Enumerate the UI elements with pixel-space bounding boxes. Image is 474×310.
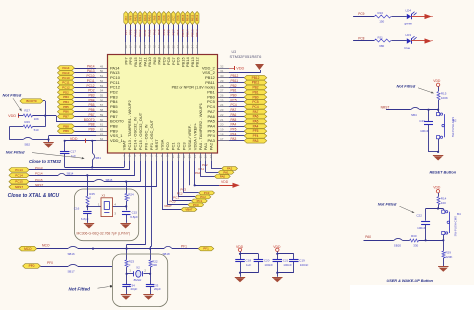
svg-text:PA3: PA3 xyxy=(208,138,216,143)
svg-text:14: 14 xyxy=(193,155,197,159)
svg-text:PB7: PB7 xyxy=(88,113,94,117)
svg-text:R29: R29 xyxy=(445,251,451,255)
svg-text:PC1: PC1 xyxy=(171,142,176,151)
svg-text:PC4: PC4 xyxy=(231,103,237,107)
svg-text:10: 10 xyxy=(171,155,175,159)
svg-text:100nF: 100nF xyxy=(283,263,292,267)
svg-text:PF0: PF0 xyxy=(29,264,35,268)
svg-text:X2: X2 xyxy=(136,266,140,270)
svg-text:16: 16 xyxy=(204,155,208,159)
svg-text:Close to XTAL & MCU: Close to XTAL & MCU xyxy=(8,193,60,199)
svg-text:24: 24 xyxy=(220,103,224,107)
svg-text:39: 39 xyxy=(167,45,171,49)
svg-text:680: 680 xyxy=(379,44,384,48)
svg-text:PB9: PB9 xyxy=(63,129,69,133)
svg-text:100nF: 100nF xyxy=(300,263,309,267)
svg-text:MC306-G-06Q-32.768 7pF (LP/NY): MC306-G-06Q-32.768 7pF (LP/NY) xyxy=(77,232,131,236)
svg-text:PB1: PB1 xyxy=(252,90,258,94)
svg-text:PC2: PC2 xyxy=(176,142,181,151)
svg-text:64: 64 xyxy=(100,137,104,141)
svg-text:PD2: PD2 xyxy=(88,89,94,93)
svg-text:PF4: PF4 xyxy=(253,134,259,138)
svg-text:48: 48 xyxy=(124,45,128,49)
svg-text:C22: C22 xyxy=(416,214,422,218)
svg-text:PB11: PB11 xyxy=(205,80,215,85)
svg-text:31: 31 xyxy=(220,69,224,73)
svg-text:RESET Button: RESET Button xyxy=(430,170,457,175)
svg-text:62: 62 xyxy=(100,128,104,132)
svg-text:44: 44 xyxy=(143,45,147,49)
svg-text:PB5: PB5 xyxy=(88,103,94,107)
svg-text:PB2: PB2 xyxy=(231,84,237,88)
svg-text:6.8pF: 6.8pF xyxy=(130,215,138,219)
svg-text:PA12: PA12 xyxy=(138,29,142,36)
svg-text:PA15: PA15 xyxy=(133,29,137,36)
svg-text:NRST: NRST xyxy=(15,185,23,189)
svg-text:100nF: 100nF xyxy=(420,129,429,133)
svg-text:R11: R11 xyxy=(378,36,384,40)
svg-text:PC14 - OSC32_IN: PC14 - OSC32_IN xyxy=(133,117,138,150)
svg-text:PC0: PC0 xyxy=(193,203,199,207)
svg-text:PF6: PF6 xyxy=(129,15,133,20)
svg-text:PB12: PB12 xyxy=(231,74,239,78)
svg-text:PC11: PC11 xyxy=(87,79,95,83)
svg-text:PB12: PB12 xyxy=(195,29,199,37)
svg-text:PA0 - TAMPER2 - WKUP1: PA0 - TAMPER2 - WKUP1 xyxy=(198,102,203,150)
svg-text:USER & WAKE-UP Button: USER & WAKE-UP Button xyxy=(387,279,434,283)
svg-text:PF4: PF4 xyxy=(231,132,237,136)
svg-text:PB12: PB12 xyxy=(195,57,200,68)
svg-text:46: 46 xyxy=(133,45,137,49)
svg-text:PA10: PA10 xyxy=(148,29,152,36)
svg-text:20: 20 xyxy=(220,123,224,127)
svg-text:R27: R27 xyxy=(24,109,30,113)
svg-text:49: 49 xyxy=(100,64,104,68)
svg-text:VBAT: VBAT xyxy=(164,204,172,208)
svg-text:PC5: PC5 xyxy=(252,100,258,104)
svg-text:PA11: PA11 xyxy=(143,29,147,36)
svg-text:C21: C21 xyxy=(283,259,289,263)
svg-text:PB0: PB0 xyxy=(252,95,258,99)
svg-text:C16: C16 xyxy=(74,207,80,211)
svg-text:PB12: PB12 xyxy=(195,14,199,21)
svg-text:PB12: PB12 xyxy=(252,76,260,80)
svg-text:20pF: 20pF xyxy=(154,287,161,291)
svg-text:55: 55 xyxy=(100,94,104,98)
svg-text:21: 21 xyxy=(220,118,224,122)
svg-text:PA5: PA5 xyxy=(231,118,237,122)
svg-text:SB1: SB1 xyxy=(95,156,101,160)
svg-text:11: 11 xyxy=(177,155,181,158)
svg-text:SB2: SB2 xyxy=(24,143,30,147)
svg-text:VSSA / VREF-: VSSA / VREF- xyxy=(187,124,192,150)
svg-text:PA14: PA14 xyxy=(87,64,95,68)
svg-text:25: 25 xyxy=(220,98,224,102)
svg-text:PC8: PC8 xyxy=(358,37,364,41)
svg-text:PC11: PC11 xyxy=(62,81,70,85)
svg-text:C23: C23 xyxy=(419,119,425,123)
svg-text:U3: U3 xyxy=(232,50,237,54)
svg-text:PA5: PA5 xyxy=(253,120,259,124)
svg-text:VBAT: VBAT xyxy=(122,139,127,150)
svg-text:PB7: PB7 xyxy=(63,115,69,119)
svg-text:PB6: PB6 xyxy=(63,110,69,114)
svg-text:27: 27 xyxy=(220,89,224,93)
svg-text:VBAT: VBAT xyxy=(185,208,193,212)
svg-text:PB9: PB9 xyxy=(88,128,94,132)
svg-text:Not Fitted: Not Fitted xyxy=(3,93,22,98)
svg-text:63: 63 xyxy=(100,132,104,136)
svg-text:PA6: PA6 xyxy=(231,113,237,117)
svg-text:15: 15 xyxy=(198,155,202,159)
svg-text:PC14: PC14 xyxy=(15,173,23,177)
svg-text:MCO: MCO xyxy=(42,243,50,247)
svg-text:PA15: PA15 xyxy=(133,14,137,21)
svg-text:C18: C18 xyxy=(246,259,252,263)
svg-text:PF0: PF0 xyxy=(47,261,53,265)
svg-text:PF1: PF1 xyxy=(181,244,187,248)
svg-text:PA10: PA10 xyxy=(148,14,152,21)
svg-text:VSSA: VSSA xyxy=(160,139,165,150)
svg-text:NRST: NRST xyxy=(154,139,159,150)
svg-text:PC9: PC9 xyxy=(162,15,166,21)
svg-text:13: 13 xyxy=(187,155,191,159)
svg-text:100nF: 100nF xyxy=(264,263,273,267)
svg-text:PB2: PB2 xyxy=(252,86,258,90)
svg-text:Not Fitted: Not Fitted xyxy=(6,150,25,155)
svg-text:STM32F051R8T6: STM32F051R8T6 xyxy=(230,54,263,59)
svg-text:PB8: PB8 xyxy=(88,123,94,127)
svg-text:PC6: PC6 xyxy=(176,29,180,35)
svg-text:R30: R30 xyxy=(411,234,417,238)
svg-text:PC10: PC10 xyxy=(62,76,70,80)
svg-text:PA0: PA0 xyxy=(220,174,226,178)
svg-text:42: 42 xyxy=(152,45,156,49)
svg-text:PF6: PF6 xyxy=(129,29,133,35)
svg-text:SB17: SB17 xyxy=(68,269,75,273)
svg-text:34: 34 xyxy=(190,45,194,49)
svg-text:100K: 100K xyxy=(441,96,448,100)
svg-text:PB4: PB4 xyxy=(88,98,94,102)
svg-text:PA3: PA3 xyxy=(253,139,259,143)
svg-text:12: 12 xyxy=(182,155,186,159)
svg-text:PC0: PC0 xyxy=(165,142,170,151)
svg-text:PC8: PC8 xyxy=(167,15,171,21)
svg-text:18: 18 xyxy=(220,132,224,136)
svg-text:Not Fitted: Not Fitted xyxy=(69,286,91,291)
svg-text:56: 56 xyxy=(100,98,104,102)
svg-text:PC7: PC7 xyxy=(171,15,175,21)
svg-text:PB1: PB1 xyxy=(231,89,237,93)
svg-text:PB11: PB11 xyxy=(252,81,260,85)
svg-text:blue: blue xyxy=(405,46,411,50)
svg-text:43: 43 xyxy=(148,45,152,49)
svg-text:52: 52 xyxy=(100,79,104,83)
svg-text:PF5: PF5 xyxy=(253,129,259,133)
svg-text:36: 36 xyxy=(181,45,185,49)
svg-text:PC12: PC12 xyxy=(87,84,95,88)
svg-text:R10: R10 xyxy=(378,11,384,15)
svg-text:PB15: PB15 xyxy=(181,14,185,21)
svg-text:57: 57 xyxy=(100,103,104,107)
svg-text:PB14: PB14 xyxy=(186,14,190,21)
svg-text:10K: 10K xyxy=(34,117,39,121)
svg-text:PC6: PC6 xyxy=(176,15,180,21)
svg-text:PA7: PA7 xyxy=(231,108,237,112)
svg-text:Not Fitted: Not Fitted xyxy=(378,202,397,207)
svg-text:35: 35 xyxy=(186,45,190,49)
svg-text:R26: R26 xyxy=(24,120,30,124)
svg-text:28: 28 xyxy=(220,84,224,88)
svg-text:PA4: PA4 xyxy=(253,124,259,128)
svg-text:PA0: PA0 xyxy=(365,235,371,239)
svg-text:PA11: PA11 xyxy=(143,14,147,21)
svg-text:SB15: SB15 xyxy=(106,178,113,182)
svg-text:MCO: MCO xyxy=(24,247,32,251)
svg-text:PF7: PF7 xyxy=(124,29,128,35)
svg-text:PF0 - OSC_IN: PF0 - OSC_IN xyxy=(143,124,148,150)
svg-text:54: 54 xyxy=(100,89,104,93)
svg-text:PF1 - OSC_OUT: PF1 - OSC_OUT xyxy=(149,119,154,150)
svg-text:22: 22 xyxy=(220,113,224,117)
svg-text:390: 390 xyxy=(152,263,157,267)
svg-text:SW-PUSH-CMS: SW-PUSH-CMS xyxy=(451,117,455,137)
svg-text:100: 100 xyxy=(441,201,446,205)
svg-text:32: 32 xyxy=(220,64,224,68)
svg-text:PB3: PB3 xyxy=(63,95,69,99)
svg-text:VDDA / VREF+: VDDA / VREF+ xyxy=(192,122,197,150)
svg-text:PA8: PA8 xyxy=(157,15,161,20)
svg-text:30: 30 xyxy=(220,74,224,78)
svg-text:PD2: PD2 xyxy=(63,90,69,94)
svg-text:SB16: SB16 xyxy=(68,252,75,256)
svg-text:VDD: VDD xyxy=(70,137,78,141)
svg-text:150: 150 xyxy=(379,19,384,23)
svg-text:PA4: PA4 xyxy=(231,123,237,127)
svg-text:PB15: PB15 xyxy=(181,29,185,37)
svg-text:61: 61 xyxy=(100,123,104,127)
svg-text:PB11: PB11 xyxy=(231,79,239,83)
svg-text:1uF: 1uF xyxy=(246,263,251,267)
svg-text:PA6: PA6 xyxy=(253,115,259,119)
svg-text:PA8: PA8 xyxy=(157,29,161,35)
svg-text:40: 40 xyxy=(162,45,166,49)
svg-text:50: 50 xyxy=(100,69,104,73)
svg-text:PC3: PC3 xyxy=(181,142,186,151)
svg-text:PB3: PB3 xyxy=(88,94,94,98)
svg-text:220K: 220K xyxy=(445,255,452,259)
svg-text:37: 37 xyxy=(176,45,180,49)
svg-text:PB13: PB13 xyxy=(190,14,194,21)
svg-text:59: 59 xyxy=(100,113,104,117)
svg-text:PA2: PA2 xyxy=(209,142,214,150)
svg-text:51: 51 xyxy=(100,74,104,78)
svg-text:PA3: PA3 xyxy=(231,137,237,141)
svg-text:Not Fitted: Not Fitted xyxy=(397,83,416,88)
svg-text:PC5: PC5 xyxy=(231,98,237,102)
svg-text:PA12: PA12 xyxy=(138,14,142,21)
svg-text:B4: B4 xyxy=(457,212,461,216)
svg-text:Close to STM32: Close to STM32 xyxy=(29,159,62,164)
svg-text:PB13: PB13 xyxy=(190,29,194,37)
svg-text:PC9: PC9 xyxy=(358,12,364,16)
svg-text:BOOT0: BOOT0 xyxy=(26,99,37,103)
svg-text:C17: C17 xyxy=(70,149,76,153)
svg-text:C19: C19 xyxy=(299,259,305,263)
svg-text:38: 38 xyxy=(171,45,175,49)
svg-text:58: 58 xyxy=(100,108,104,112)
svg-text:PF7: PF7 xyxy=(124,15,128,20)
svg-text:8MHz: 8MHz xyxy=(134,278,142,282)
svg-text:PA13: PA13 xyxy=(87,69,95,73)
svg-text:PF1: PF1 xyxy=(203,247,209,251)
svg-text:PF5: PF5 xyxy=(231,128,237,132)
svg-text:PC10: PC10 xyxy=(87,74,95,78)
svg-text:20pF: 20pF xyxy=(131,287,138,291)
svg-text:LD3: LD3 xyxy=(406,33,412,37)
svg-text:17: 17 xyxy=(220,137,224,141)
svg-text:PC0: PC0 xyxy=(170,199,176,203)
svg-text:PA7: PA7 xyxy=(253,110,259,114)
svg-text:100nF: 100nF xyxy=(417,226,426,230)
svg-text:29: 29 xyxy=(220,79,224,83)
svg-text:PB4: PB4 xyxy=(63,100,69,104)
svg-text:23: 23 xyxy=(220,108,224,112)
svg-text:53: 53 xyxy=(100,84,104,88)
svg-text:PC15 - OSC32_OUT: PC15 - OSC32_OUT xyxy=(138,112,143,150)
svg-text:PB8: PB8 xyxy=(63,124,69,128)
svg-text:PA0: PA0 xyxy=(195,171,201,175)
svg-text:PC12: PC12 xyxy=(62,86,70,90)
svg-text:510: 510 xyxy=(34,128,39,132)
svg-text:33: 33 xyxy=(195,45,199,49)
svg-text:PA9: PA9 xyxy=(152,15,156,20)
svg-text:PC13: PC13 xyxy=(15,168,23,172)
svg-text:R15: R15 xyxy=(441,92,447,96)
svg-text:PA13: PA13 xyxy=(62,71,69,75)
svg-text:19: 19 xyxy=(220,128,224,132)
svg-text:17: 17 xyxy=(209,155,213,159)
svg-text:45: 45 xyxy=(138,45,142,49)
svg-text:PB14: PB14 xyxy=(186,29,190,37)
svg-text:PA9: PA9 xyxy=(152,29,156,35)
svg-text:SB14: SB14 xyxy=(67,171,74,175)
svg-text:VDD: VDD xyxy=(221,180,229,184)
svg-text:PB6: PB6 xyxy=(88,108,94,112)
svg-text:PC9: PC9 xyxy=(162,29,166,35)
svg-text:NRST: NRST xyxy=(381,106,390,110)
svg-text:PC8: PC8 xyxy=(167,29,171,35)
svg-text:PA1: PA1 xyxy=(203,142,208,150)
svg-text:SW-PUSH-CMS: SW-PUSH-CMS xyxy=(454,216,458,236)
svg-text:PA14: PA14 xyxy=(62,66,69,70)
svg-text:PC7: PC7 xyxy=(171,29,175,35)
svg-text:PC13 - TAMPER1 - WKUP2: PC13 - TAMPER1 - WKUP2 xyxy=(127,100,132,151)
svg-text:SB20: SB20 xyxy=(394,243,402,247)
svg-text:green: green xyxy=(405,21,413,25)
svg-text:VDD: VDD xyxy=(433,79,441,83)
svg-text:26: 26 xyxy=(220,94,224,98)
svg-text:47: 47 xyxy=(129,45,133,49)
svg-text:41: 41 xyxy=(157,45,161,49)
svg-text:C20: C20 xyxy=(264,259,270,263)
svg-text:PC15: PC15 xyxy=(15,180,23,184)
svg-text:VDD: VDD xyxy=(236,66,244,70)
svg-text:X3: X3 xyxy=(102,193,106,197)
svg-text:PB5: PB5 xyxy=(63,105,69,109)
svg-text:VDD: VDD xyxy=(433,185,441,189)
svg-text:330: 330 xyxy=(413,244,418,248)
svg-text:60: 60 xyxy=(100,118,104,122)
svg-text:PB0: PB0 xyxy=(231,94,237,98)
svg-text:PC4: PC4 xyxy=(252,105,258,109)
svg-text:SB4: SB4 xyxy=(411,113,417,117)
svg-text:LD4: LD4 xyxy=(406,8,412,12)
svg-text:VDD: VDD xyxy=(8,114,16,118)
svg-text:PC14: PC14 xyxy=(35,172,43,176)
